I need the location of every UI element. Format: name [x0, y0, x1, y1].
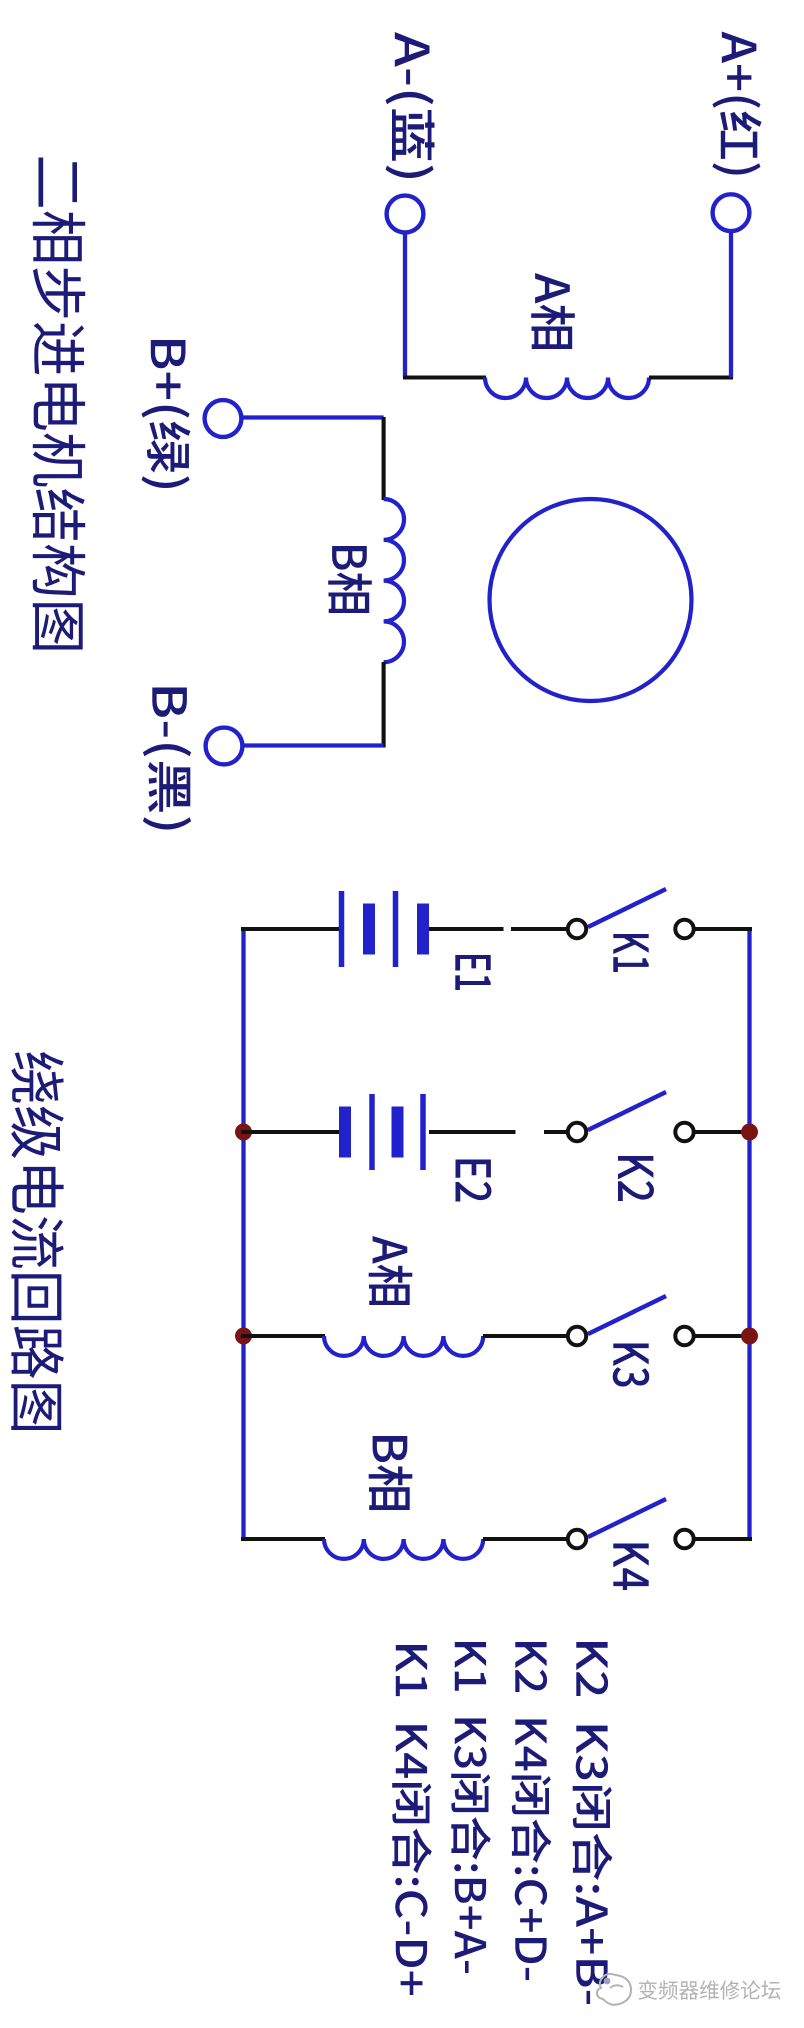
battery E1 plate long(+): [339, 891, 345, 967]
wire K2 right contact to right rail: [694, 1130, 752, 1134]
terminal B- open circle: [206, 728, 243, 765]
note column: K2 K3闭合:A+B-: [573, 1642, 613, 2004]
label A-(blue) terminal text: [386, 32, 435, 178]
switch K3 left contact circle: [568, 1327, 586, 1345]
junction dot row2 left rail: [235, 1124, 252, 1141]
switch K2 right contact circle: [675, 1123, 693, 1141]
wire black to phase A coil: [403, 375, 486, 379]
wire from A- terminal down: [403, 233, 407, 378]
note column: K1 K3闭合:B+A-: [451, 1642, 491, 1973]
switch K4 lever (blue): [588, 1499, 666, 1537]
label B-(black) terminal text: [143, 688, 191, 830]
wire row4 coil to switch K4: [483, 1537, 568, 1541]
label A相 (phase A winding, upper diagram): [531, 273, 575, 349]
label B相 (phase B, row4): [369, 1436, 413, 1510]
note column: K1 K4闭合:C-D+: [392, 1645, 432, 1995]
title: 绕级电流回路图 (winding current loop diagram): [11, 1052, 64, 1430]
switch K1 left contact circle: [568, 920, 586, 938]
left rail wire (blue vertical bus): [241, 927, 245, 1541]
wire row1 from left rail to battery E1: [241, 927, 339, 931]
wire row1 gap to switch K1: [511, 927, 568, 931]
wire black from phase A coil: [649, 375, 733, 379]
wire black down to phase B coil: [382, 417, 386, 500]
battery E1 plate short(-): [363, 904, 375, 955]
wire row1 battery to gap: [429, 927, 504, 931]
wire K1 right contact to right rail: [694, 927, 752, 931]
rotor circle of stepper motor: [490, 499, 692, 701]
junction dot row3 left rail: [235, 1328, 252, 1345]
inductor: phase B winding coil: [384, 499, 404, 662]
inductor: phase A winding (row3): [324, 1336, 483, 1356]
switch K1 lever (blue): [588, 889, 666, 927]
label K3 (switch 3): [613, 1344, 650, 1387]
battery E2 plate short(-): [392, 1107, 404, 1158]
wire row4 from left rail to coil: [241, 1537, 325, 1541]
switch K3 right contact circle: [675, 1327, 693, 1345]
battery E2 plate long(+): [369, 1094, 375, 1170]
battery E2 plate short(-): [339, 1107, 351, 1158]
wire row2 from left rail to battery E2: [241, 1130, 343, 1134]
wire row2 battery to gap: [429, 1130, 516, 1134]
right rail wire (blue vertical bus): [747, 927, 751, 1541]
label A+(red) terminal text: [712, 32, 761, 175]
wire row3 from left rail to coil: [241, 1334, 325, 1338]
switch K4 left contact circle: [568, 1530, 586, 1548]
switch K2 left contact circle: [568, 1123, 586, 1141]
note column: K2 K4闭合:C+D-: [512, 1642, 552, 1980]
watermark text 变频器维修论坛: [639, 1980, 781, 2000]
inductor: phase B winding (row4): [324, 1539, 483, 1559]
wire row2 gap to switch K2: [544, 1130, 568, 1134]
junction dot row2 right rail: [741, 1124, 758, 1141]
switch K2 lever (blue): [588, 1092, 666, 1130]
inductor: phase A winding coil: [485, 378, 649, 398]
switch K4 right contact circle: [675, 1530, 693, 1548]
title: 二相步进电机结构图 (two-phase stepper motor structure diagram): [33, 158, 85, 650]
battery E1 plate long(+): [393, 891, 399, 967]
label B+(green) terminal text: [142, 340, 191, 488]
wire up to A+ terminal: [729, 233, 733, 378]
wire K3 right contact to right rail: [694, 1334, 752, 1338]
label E1 (battery 1): [455, 955, 490, 990]
label K2 (switch 2): [618, 1156, 654, 1201]
label A相 (phase A, row3): [369, 1236, 413, 1305]
battery E1 plate short(-): [417, 904, 429, 955]
watermark logo (gray bird): [597, 1974, 631, 2005]
switch K1 right contact circle: [675, 920, 693, 938]
wire black from phase B coil down: [382, 662, 386, 748]
label B相 (phase B winding, upper diagram): [328, 546, 372, 613]
wire row3 coil to switch K3: [483, 1334, 568, 1338]
terminal B+ open circle: [205, 400, 242, 437]
wire left to B- terminal: [243, 743, 384, 747]
label K4 (switch 4): [613, 1544, 648, 1591]
battery E2 plate long(+): [420, 1094, 426, 1170]
terminal A+ open circle: [713, 194, 750, 231]
label E2 (battery 2): [456, 1160, 492, 1202]
switch K3 lever (blue): [588, 1296, 666, 1334]
label K1 (switch 1): [613, 934, 648, 972]
terminal A- open circle: [387, 196, 424, 233]
wire from B+ terminal right: [242, 415, 384, 419]
junction dot row3 right rail: [741, 1328, 758, 1345]
wire K4 right contact to right rail: [694, 1537, 752, 1541]
